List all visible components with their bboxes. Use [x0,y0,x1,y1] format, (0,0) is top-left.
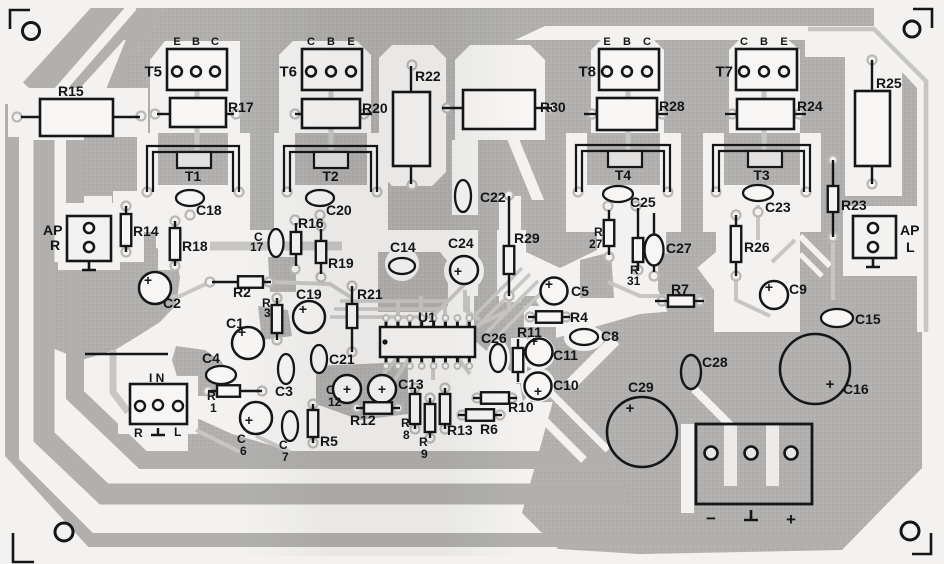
routing channel diagonal R30 [505,134,544,200]
capacitor C5 [541,278,568,305]
routing channel R18 [158,196,192,270]
capacitor C17 [269,229,284,257]
svg-text:B: B [192,36,200,48]
copper wedge inside T3 [726,133,798,188]
copper wedge below T4 T3 gap [666,230,716,274]
connector AP R [67,216,111,261]
svg-text:1: 1 [210,401,217,415]
routing pocket C8 [564,325,604,351]
svg-text:31: 31 [627,274,641,288]
routing pocket C14 [385,247,419,281]
wire trace bundle U1 to R30 1 [468,268,522,322]
copper plane left of T5 upper [128,53,148,102]
resistor R14 [125,206,127,214]
svg-text:C10: C10 [553,377,579,393]
connector AP L [853,216,896,258]
routing island T6 [279,41,371,133]
svg-text:+: + [626,400,635,417]
routing pocket C10 [521,368,555,402]
capacitor C29 [607,397,677,467]
ground trace ring 2 [44,140,628,494]
routing slot T2 left leg [274,133,295,200]
routing diagonal channel in pour C10 [570,340,615,385]
svg-text:−: − [706,509,716,528]
routing slot T4 left leg [566,133,587,200]
transistor pads T6 [302,49,362,90]
resistor R8 [414,388,416,394]
svg-text:C5: C5 [571,283,589,299]
capacitor C24 [450,256,478,284]
routing island below T2 [274,185,388,232]
routing slot T1 right leg [228,133,250,200]
resistor R22 [410,66,412,92]
copper diagonal strip 2 top left [116,4,152,94]
capacitor C14 [389,258,415,274]
routing channel R29 [499,196,521,302]
white margin bottom [0,556,944,564]
svg-text:+: + [765,279,773,295]
svg-text:T4: T4 [615,167,632,183]
resistor R23 [832,160,834,186]
resistor R25 [871,60,873,91]
svg-text:+: + [786,510,796,529]
svg-text:27: 27 [589,237,603,251]
routing pocket C5 [535,275,573,313]
routing island T7 [729,38,800,133]
svg-text:C4: C4 [202,350,220,366]
svg-text:C: C [643,36,651,48]
svg-text:T5: T5 [144,64,162,81]
routing slot T2 right leg [367,133,388,200]
routing pocket C11 [521,336,555,370]
routing channel left of connector [681,424,694,513]
routing island AP R [58,203,120,270]
capacitor C12 [333,375,361,403]
resistor R17 [157,113,170,115]
wire trace R27 region [608,282,700,296]
capacitor C19 [293,301,325,333]
scan shading [240,8,520,556]
resistor R7 [655,300,668,302]
routing island AP L [843,206,920,276]
corner mark top right [913,9,932,28]
resistor R5 [312,404,314,410]
svg-text:C11: C11 [553,347,578,363]
svg-text:+: + [826,376,835,393]
wire trace center bus 2 [150,282,210,298]
routing diagonal channel AP L 2 [800,254,822,276]
svg-text:T3: T3 [753,167,770,183]
routing channel connector slot 1 [724,424,737,486]
routing pocket C26 [486,340,510,376]
svg-text:R23: R23 [841,197,867,213]
routing island R30 [455,45,545,140]
wire trace bundle U1 to R30 4 [494,289,545,340]
capacitor C16 [780,334,850,404]
transistor pads T8 [599,49,659,90]
svg-text:C2: C2 [163,295,181,311]
routing diagonal channel pour 2 [548,390,608,450]
resistor R2 [212,281,238,283]
svg-text:R24: R24 [797,98,823,114]
svg-text:C: C [211,36,219,48]
svg-text:T1: T1 [185,168,202,184]
capacitor C4 [206,366,236,384]
copper wedge center [526,230,597,268]
svg-text:C8: C8 [601,328,619,344]
svg-text:R: R [134,426,143,440]
routing channel connector slot 2 [766,424,779,486]
wire trace U1 top pins [396,300,400,327]
resistor R28 [584,113,597,115]
corner mark bottom left [13,533,34,562]
capacitor C27 [653,213,655,236]
capacitor C22 [455,180,471,212]
svg-text:+: + [144,272,152,288]
wire trace T8 island [626,88,631,150]
routing pocket R11 [511,338,527,383]
resistor R30 [442,107,463,109]
ground trace ring 3 [75,140,614,460]
svg-text:R18: R18 [182,238,208,254]
svg-text:C18: C18 [196,202,222,218]
capacitor C7 [282,411,298,441]
copper wedge inside T1 [160,133,227,188]
wire trace bundle U1 to R30 3 [486,281,538,333]
svg-text:E: E [173,36,180,48]
capacitor C18 [176,190,204,206]
routing slot T1 left leg [137,133,158,200]
wire board outline trace top right [808,29,926,332]
resistor R3 [276,298,278,305]
svg-text:C27: C27 [666,240,692,256]
wire trace U1 bottom pins [378,357,398,380]
svg-text:R28: R28 [659,98,685,114]
svg-text:R30: R30 [540,99,566,115]
wire trace R26 down [736,276,770,316]
capacitor C13 [368,375,396,403]
IC U1 [380,327,475,357]
wire trace R23 region [831,240,835,300]
svg-text:C15: C15 [855,311,881,327]
copper wedge below C17 [268,257,296,292]
svg-text:R15: R15 [58,83,84,99]
routing island T5 [150,41,240,133]
resistor R10 [473,397,481,399]
svg-text:R: R [50,237,60,253]
svg-text:R14: R14 [133,223,159,239]
white corner cut bottom left [0,455,92,564]
routing diagonal channel top left [58,6,133,92]
capacitor C23 [743,185,773,201]
transistor pads T5 [167,49,227,90]
wire trace C23 down [756,205,760,240]
routing pocket R4 [524,306,572,327]
wire trace T6 island [329,88,334,150]
capacitor C2 [139,272,171,304]
routing diagonal channel connector [694,389,731,426]
svg-text:B: B [623,36,631,48]
ground symbol power [744,510,758,520]
copper pour main field [137,40,805,230]
capacitor C28 [681,355,701,389]
resistor R21 [351,286,353,304]
svg-text:C25: C25 [630,194,656,210]
wire trace C6 down [256,436,290,452]
svg-text:R26: R26 [744,239,770,255]
copper wedge below C27 [658,252,714,332]
ground trace ring 1 [12,104,845,540]
copper wedge below IN [188,414,294,462]
wire trace bus left of U1 3 [330,287,462,317]
ground symbol AP L [866,258,880,267]
routing diagonal channel pour 1 [524,400,584,460]
svg-text:T8: T8 [578,64,596,81]
resistor R18 [174,221,176,228]
copper wedge left of C24 [378,252,448,312]
svg-text:L: L [174,425,181,439]
resistor R31 [637,208,639,238]
svg-text:AP: AP [900,222,919,238]
capacitor C21 [311,345,327,373]
svg-text:AP: AP [43,222,62,238]
capacitor C26 [490,344,506,372]
resistor R26 [735,215,737,226]
routing channel R14 [113,191,144,262]
white margin top [0,0,944,8]
routing slot T3 right leg [800,133,821,200]
power transistor T2 [284,146,377,192]
wire trace C24 area [465,290,480,320]
wire trace left of IN [113,350,128,412]
capacitor C3 [278,354,294,384]
resistor R13 [444,388,446,394]
capacitor C15 [821,309,853,327]
resistor R9 [429,398,431,404]
routing island below T3 [703,185,821,232]
connector power [696,424,812,504]
power transistor T4 [576,145,670,192]
svg-text:C16: C16 [843,381,869,397]
wire trace bus left of U1 1 [340,273,476,301]
transistor pads T7 [736,49,797,90]
routing pocket R15 pads [8,100,44,137]
copper pocket C12 C13 [316,362,408,420]
svg-text:C9: C9 [789,281,807,297]
resistor R12 [356,407,364,409]
svg-text:E: E [603,36,610,48]
routing island IN [118,376,198,434]
routing slot T4 right leg [660,133,681,200]
copper diagonal band top left [40,10,120,98]
routing island T8 [591,38,664,133]
copper wedge left of C4 [172,346,232,396]
wire trace bus left of U1 2 [334,279,470,309]
wire trace T7 island [762,88,767,150]
resistor R19 [320,229,322,241]
copper pour top right [800,57,917,230]
pads various [137,112,146,121]
copper plane right column [800,230,917,332]
routing island R22 [379,45,446,186]
wire signal line to IN [85,353,168,355]
power transistor T1 [147,146,239,192]
copper plane left of T1 leg [128,135,137,200]
svg-text:L: L [906,239,915,255]
resistor R1 [208,390,217,392]
capacitor C1 [232,327,264,359]
corner mark top left [10,10,30,29]
svg-text:R25: R25 [876,75,902,91]
resistor R29 [508,196,510,246]
svg-text:R7: R7 [671,281,689,297]
svg-text:+: + [545,276,553,292]
routing channel C22 [452,140,478,215]
svg-text:R4: R4 [570,309,588,325]
resistor R4 [528,316,536,318]
routing island below T1 [137,185,250,232]
copper wedge inside T4 [589,133,658,188]
wire trace T5 island [195,88,200,150]
ground symbol AP R [82,261,96,270]
copper plane bottom right [522,310,922,554]
resistor R20 [295,113,302,115]
copper wedge inside T2 [297,133,366,188]
resistor R15 [21,116,40,118]
capacitor C8 [570,329,598,345]
connector IN [130,384,187,424]
wire trace R29 down [480,296,509,324]
svg-text:+: + [534,383,542,399]
capacitor C10 [525,373,552,400]
routing island R25 [845,57,902,196]
routing pocket R31 label [621,267,651,297]
svg-text:+: + [530,333,538,349]
wire trace bundle U1 to R30 2 [477,274,530,327]
capacitor C20 [306,190,334,206]
wire trace AP L up [772,240,795,262]
svg-text:C: C [740,36,748,48]
routing island R15 [24,88,148,137]
svg-text:I N: I N [149,371,164,385]
copper pour top band [77,8,874,40]
power transistor T3 [713,145,810,192]
resistor R27 [608,210,610,220]
capacitor C9 [760,281,788,309]
svg-text:C29: C29 [628,379,654,395]
routing island below T4 [566,185,681,232]
routing diagonal channel AP L 1 [800,236,830,266]
svg-text:C23: C23 [765,199,791,215]
routing pocket C24 [444,251,484,291]
routing pocket R10 R6 [456,384,524,430]
resistor R24 [725,113,737,115]
copper plane left blob [34,186,180,360]
wire trace IN diagonal [196,430,240,452]
copper patch below R3 [258,306,292,340]
capacitor C11 [526,339,553,366]
white margin right [931,0,944,564]
copper plane C5 C11 C10 zone [474,296,556,402]
routing slot T3 left leg [703,133,724,200]
capacitor C25 [603,186,633,202]
copper plane below R15 [84,137,141,196]
copper wedge right of R27 [580,252,614,298]
svg-text:B: B [760,36,768,48]
resistor R11 [517,339,519,348]
wire trace center bus 1 [269,282,352,298]
svg-text:T7: T7 [715,64,733,81]
resistor R6 [458,414,466,416]
resistor R16 [295,223,297,232]
capacitor C6 [240,402,272,434]
corner mark bottom right [912,533,931,554]
copper wedge right of C24 [478,230,497,310]
svg-text:E: E [780,36,787,48]
wire trace across C17 R16 R19 [210,242,342,251]
svg-text:C28: C28 [702,354,728,370]
